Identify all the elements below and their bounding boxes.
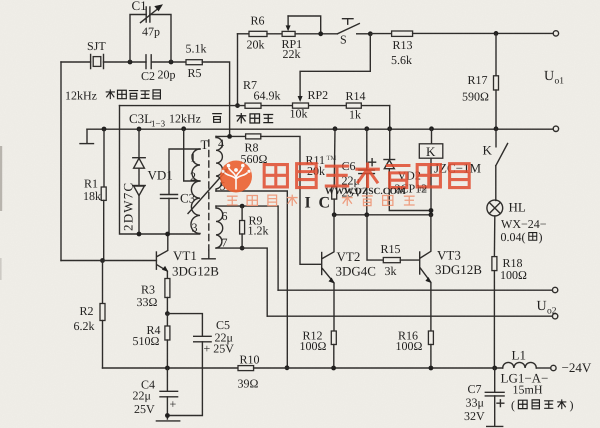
wire left rail x61 [60,62,62,261]
node R17 bottom [494,126,499,131]
wire collector line y214.8 [334,214,431,216]
potentiometer RP2 [290,88,329,121]
wire Uo2 lower line [267,315,552,317]
wire R1 to base node [103,200,105,260]
lamp HL [487,200,526,216]
wire pin6 branch [216,206,278,290]
capacitor C4 [133,368,178,419]
text 12kHz crystal label [65,89,160,103]
resistor R18 [492,216,527,368]
diode VD1 dual zener [133,129,173,234]
paper noise [0,0,1,1]
terminal -24V [551,365,556,370]
watermark logo circle [220,161,252,193]
ground top-left [80,129,94,143]
watermark big red text [264,162,469,188]
capacitor C7 [464,368,504,425]
arrow C3 tuning [188,168,229,214]
node C4 C5 join [165,413,170,418]
wire R6 to RP1 [267,33,282,35]
ground C4 [156,420,179,422]
wire bottom rail y368 right part [254,367,503,369]
wire R3 to node [166,298,168,314]
wire pin4 to R8 [216,135,246,137]
resistor R4 [133,314,170,368]
node RP1 wiper tie [318,31,323,36]
transformer core dashed [208,140,210,250]
capacitor C2 [141,55,176,83]
resistor R10 [238,353,260,391]
node C1 right [169,60,174,65]
node R11 bottom [332,212,337,217]
text C3L1-3 12kHz resonant label [129,111,273,129]
transformer T primary winding [190,149,200,235]
resistor R9 [240,206,269,248]
terminal Uo1 bottom [553,126,558,131]
text WX-24-0.04 [501,217,547,244]
node pin4 R5 join [227,134,232,139]
wire R8 to VT2 base [261,136,321,264]
resistor R5 [186,42,207,81]
terminal Uo1 top [553,31,558,36]
node R12 bottom [331,366,336,371]
transistor VT2 [322,215,376,331]
node R7 left [235,103,240,108]
wire R5 to corner down to pin4 node [202,62,229,136]
terminal Uo2 upper [552,287,557,292]
wire R13 to Uo1 terminal [413,32,554,34]
wire pin7 branch [216,248,267,316]
node R16 bottom [429,366,434,371]
wire R6 branch corner down [237,34,239,106]
node C4 top [165,366,170,371]
resistor R16 [396,329,434,369]
ground C7 [487,425,503,427]
wire R14 end corner down [389,106,391,129]
text Uo2 [537,299,557,317]
node VT1 collector [165,232,170,237]
wire pin5 to bottom rail [216,191,287,368]
resistor R6 [247,14,268,52]
node C6 bottom [364,212,369,217]
capacitor C5 [167,314,234,416]
node R3 R4 C5 [165,311,170,316]
relay coil K box [419,126,481,210]
terminal Uo2 lower [552,314,557,319]
node R9 top [240,204,245,209]
resistor R2 [74,261,106,369]
resistor R7 [243,78,281,108]
wire R6 line [238,33,250,35]
text color-code inductor [511,398,574,412]
resistor R3 [137,279,170,310]
wire Uo2 upper line [278,289,552,291]
node VD1 top [137,127,142,132]
resistor R11 [306,126,338,214]
transformer secondary lower winding [216,206,228,249]
text LG1-A- 15mH [501,371,549,397]
resistor R13 [391,31,413,67]
node VD2 K join [429,208,434,213]
node S right [368,31,373,36]
wire tap2 branch [184,129,200,181]
node R17 top [494,31,499,36]
wire R1 branch [103,129,105,187]
node VD1 bottom [137,232,142,237]
ground core [202,250,215,259]
scan artifact left edge [0,146,2,211]
transistor VT3 [420,215,483,331]
text Uo1 [544,69,564,87]
resistor R8 [241,134,268,166]
diode VD2 [384,126,431,210]
node pin5 rail [285,365,290,370]
resistor R15 [367,215,419,278]
potentiometer RP1 [282,16,321,61]
node K line VT3 [429,212,434,217]
resistor R17 [462,33,499,128]
crystal SJT [87,39,106,69]
resistor R12 [300,329,337,369]
wire pin1 to C3 [169,149,200,194]
node base line [100,258,105,263]
wire R7 line y105.6 [120,105,390,107]
resistor R14 [346,89,366,122]
capacitor C3 [161,191,196,235]
wire S node down to RP2 wiper [300,34,370,98]
node R9 bottom [240,246,245,251]
wire main top line y62 left segment [61,61,91,63]
wire C1 branch loop [130,15,171,63]
node tap2 drop [181,126,186,131]
watermark slogan row [227,195,298,206]
switch K contact [483,129,508,201]
wire C2 to R5 [151,61,186,63]
wire bottom rail y368 left part [103,367,239,369]
node rail C7 [492,366,497,371]
resistor R1 [83,177,106,204]
node C1 left [128,60,133,65]
switch S [337,19,370,47]
wire RP1 to S [295,33,337,35]
wire crystal to C2 [104,61,147,63]
capacitor C1 trimmer [132,0,164,39]
wire left edge of resonant loop down and bottom rail y234 [120,106,200,234]
capacitor C6 [342,126,376,214]
wire S to R13 [370,33,391,35]
transistor VT1 [61,234,219,279]
transformer secondary upper winding [216,136,226,193]
node ground R1 [102,127,107,132]
RP2 wiper arrow [298,96,303,102]
wire long rail y128.8 [87,128,553,130]
inductor L1 [503,348,551,369]
